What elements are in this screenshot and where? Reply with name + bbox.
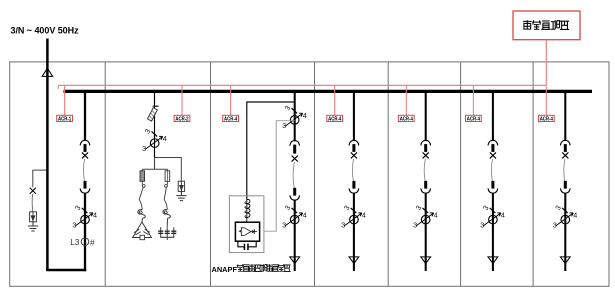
ACR meter drop wire 4 xyxy=(334,86,336,115)
main CT + ammeter xyxy=(72,204,97,230)
red comm bus left stub xyxy=(57,85,59,89)
APF caption ANAPF series active power filter xyxy=(212,264,291,274)
main riser wire upper xyxy=(84,90,86,141)
feeder 4 breaker xyxy=(349,140,359,193)
comm manager text (hanzi strokes) xyxy=(523,20,569,29)
svg-text:3/N ~ 400V 50Hz: 3/N ~ 400V 50Hz xyxy=(11,26,80,36)
cabinet outline frame xyxy=(10,62,609,286)
bottom run wire xyxy=(46,269,86,272)
feeder 6 CT + ammeter xyxy=(480,204,505,230)
APF feeder breaker xyxy=(290,141,300,201)
surge arrester box xyxy=(30,212,37,222)
svg-text:ACR-4: ACR-4 xyxy=(328,116,341,122)
main busbar xyxy=(64,90,593,93)
ACR meter box ACR-4 xyxy=(398,115,414,122)
open-delta common bar xyxy=(160,236,174,238)
SPD branch wire xyxy=(33,170,46,187)
feeder 4 outgoing arrow xyxy=(349,257,359,264)
APF inverter module box xyxy=(235,222,259,241)
svg-text:#: # xyxy=(90,237,95,247)
APF feeder wire lower xyxy=(294,200,296,271)
svg-text:ACR-4: ACR-4 xyxy=(467,116,480,122)
feeder 6 breaker xyxy=(488,140,498,193)
SPD disconnect X xyxy=(30,188,36,194)
comm manager drop wire xyxy=(545,40,547,86)
open-delta tail stub xyxy=(166,237,168,240)
ACR meter box ACR-4 xyxy=(223,115,239,122)
main riser wire lower xyxy=(84,193,86,272)
feeder 7 wire upper xyxy=(564,93,566,141)
panel separator 2/3 xyxy=(210,62,212,286)
comm manager box xyxy=(513,11,580,40)
feeder 6 outgoing arrow xyxy=(488,257,498,264)
svg-text:ANAPF: ANAPF xyxy=(212,265,238,274)
feeder 5 wire upper xyxy=(425,93,427,141)
ACR meter box ACR-2 xyxy=(174,115,190,122)
main breaker QF0 xyxy=(80,140,90,193)
ACR meter drop wire 3 xyxy=(230,86,232,115)
svg-text:ACR-4: ACR-4 xyxy=(400,116,413,122)
panel separator 6/7 xyxy=(532,62,534,286)
panel separator 5/6 xyxy=(460,62,462,286)
tap wire to arrester xyxy=(155,158,182,182)
feeder 5 CT + ammeter xyxy=(413,204,438,230)
ACR meter box ACR-4 xyxy=(466,115,482,122)
panel separator 1/2 xyxy=(104,62,106,286)
PT fuse FU2 (open) xyxy=(166,169,168,171)
ACR meter box ACR-1 xyxy=(57,115,73,122)
feeder 6 wire lower xyxy=(492,193,494,271)
svg-text:ACR-1: ACR-1 xyxy=(58,116,71,122)
svg-text:ACR-4: ACR-4 xyxy=(540,116,553,122)
IGBT symbol xyxy=(239,228,257,236)
svg-text:ACR-2: ACR-2 xyxy=(175,116,188,122)
feeder 7 wire lower xyxy=(564,193,566,271)
ACR meter drop wire 7 xyxy=(545,86,547,115)
APF reactor coil xyxy=(245,199,250,222)
APF lower CT xyxy=(282,204,307,230)
APF upper CT xyxy=(282,104,307,130)
feeder 4 wire lower xyxy=(353,193,355,271)
feeder 5 wire lower xyxy=(425,193,427,271)
svg-text:ACR-4: ACR-4 xyxy=(224,116,237,122)
feeder 6 wire upper xyxy=(492,93,494,141)
APF tap header wire xyxy=(247,102,295,200)
SPD wire xyxy=(31,194,34,212)
svg-text:L3: L3 xyxy=(70,238,80,247)
feeder 7 CT + ammeter xyxy=(553,204,578,230)
incoming service drop wire xyxy=(46,39,49,272)
SPD earth xyxy=(28,222,38,231)
arrester earth panel2 xyxy=(176,191,186,200)
ACR meter drop wire 6 xyxy=(472,86,474,115)
PT2 winding curl xyxy=(163,209,170,218)
ACR meter box ACR-4 xyxy=(327,115,343,122)
panel separator 3/4 xyxy=(314,62,316,286)
ACR meter drop wire 1 xyxy=(64,86,66,115)
feeder 4 wire upper xyxy=(353,93,355,141)
neutral meter circle xyxy=(81,238,89,246)
panel separator 4/5 xyxy=(387,62,389,286)
PT1 winding curl xyxy=(138,209,145,218)
ACR meter drop wire 2 xyxy=(181,86,183,115)
APF outgoing arrow xyxy=(290,257,300,264)
DC link capacitor xyxy=(238,241,256,247)
fuse switch body xyxy=(147,108,157,121)
PT1 switch xyxy=(141,181,143,184)
red comm bus line xyxy=(58,84,546,86)
arrester box panel2 xyxy=(178,181,184,191)
PT2 open-delta terminals xyxy=(166,218,168,227)
PT1 delta winding xyxy=(141,218,143,222)
PT branch header wire xyxy=(142,168,167,170)
CT sampling wire to APF xyxy=(264,121,295,232)
ACR meter drop wire 5 xyxy=(405,86,407,115)
feeder 7 breaker xyxy=(560,140,570,193)
incoming transformer delta symbol xyxy=(42,68,52,76)
PT fuse FU1 (filled) xyxy=(141,169,143,171)
fuse switch contact tick xyxy=(153,105,159,107)
feeder 5 breaker xyxy=(421,140,431,193)
feeder 7 outgoing arrow xyxy=(560,257,570,264)
feeder 5 outgoing arrow xyxy=(421,257,431,264)
PT feeder wire xyxy=(154,158,156,170)
ACR meter box ACR-4 xyxy=(538,115,554,122)
APF feeder wire upper xyxy=(294,93,296,141)
PT panel CT + meter xyxy=(142,127,167,153)
feeder 4 CT + ammeter xyxy=(341,204,366,230)
PT2 switch xyxy=(166,181,168,184)
PT panel drop wire xyxy=(154,93,156,158)
APF cabinet box xyxy=(229,196,264,253)
